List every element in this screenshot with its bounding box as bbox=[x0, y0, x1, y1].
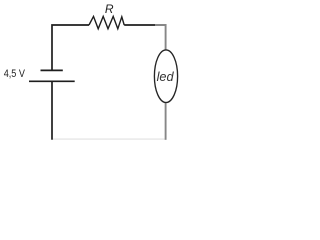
svg-text:4,5 V: 4,5 V bbox=[4, 68, 26, 80]
wire: battery negative lead down left side bbox=[51, 81, 53, 139]
wire: resistor to top-right bbox=[124, 24, 156, 26]
battery B1 long plate (positive) bbox=[29, 80, 75, 82]
wire: gray led cathode lead down bbox=[165, 103, 167, 140]
led L1 (ellipse symbol) bbox=[154, 50, 177, 103]
svg-text:R: R bbox=[105, 2, 114, 16]
wire: gray top-right corner down to led anode bbox=[155, 25, 166, 50]
battery B1 short plate (negative) bbox=[41, 69, 63, 71]
svg-text:led: led bbox=[157, 69, 175, 84]
wire: left top corner rail from battery up and right to resistor bbox=[52, 25, 89, 71]
wire: bottom rail (faint) bbox=[52, 138, 166, 140]
resistor R bbox=[89, 16, 124, 28]
